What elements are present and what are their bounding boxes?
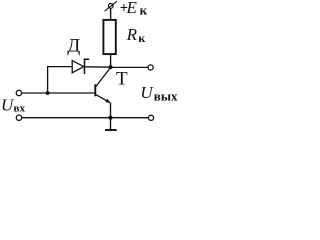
resistor Rк (103, 20, 115, 54)
bottom-left terminal (16, 115, 21, 120)
wire: node to output terminal (111, 66, 148, 68)
bottom-right terminal (148, 115, 153, 120)
wire: diode cathode to collector node (85, 66, 111, 68)
node: input/diode junction (46, 91, 50, 95)
ground (105, 118, 117, 130)
svg-text:к: к (140, 3, 148, 18)
svg-text:R: R (126, 25, 138, 44)
label Uвх (1, 95, 25, 114)
wire: terminal to resistor (110, 8, 112, 20)
label Uвых (140, 83, 178, 103)
wire: resistor to collector node (110, 54, 112, 67)
node: collector junction (109, 65, 113, 69)
svg-text:E: E (126, 0, 138, 17)
diode D (zener) (72, 59, 89, 74)
wire: riser from junction to diode anode (48, 67, 73, 93)
svg-text:вых: вых (154, 88, 178, 103)
power terminal +Ek (105, 1, 117, 11)
svg-text:к: к (138, 31, 145, 45)
svg-text:Д: Д (67, 35, 80, 56)
wire: emitter to bottom rail (110, 103, 112, 118)
label Rк (126, 25, 146, 45)
wire: input terminal to base (22, 92, 96, 94)
transistor T (95, 68, 111, 104)
svg-text:Т: Т (116, 69, 128, 90)
label +Eк (120, 0, 148, 18)
node: emitter/rail junction (108, 116, 112, 120)
svg-text:U: U (140, 83, 154, 102)
input terminal (16, 90, 21, 95)
bottom rail wire (22, 117, 149, 119)
svg-text:вх: вх (14, 103, 26, 115)
output terminal (148, 65, 153, 70)
